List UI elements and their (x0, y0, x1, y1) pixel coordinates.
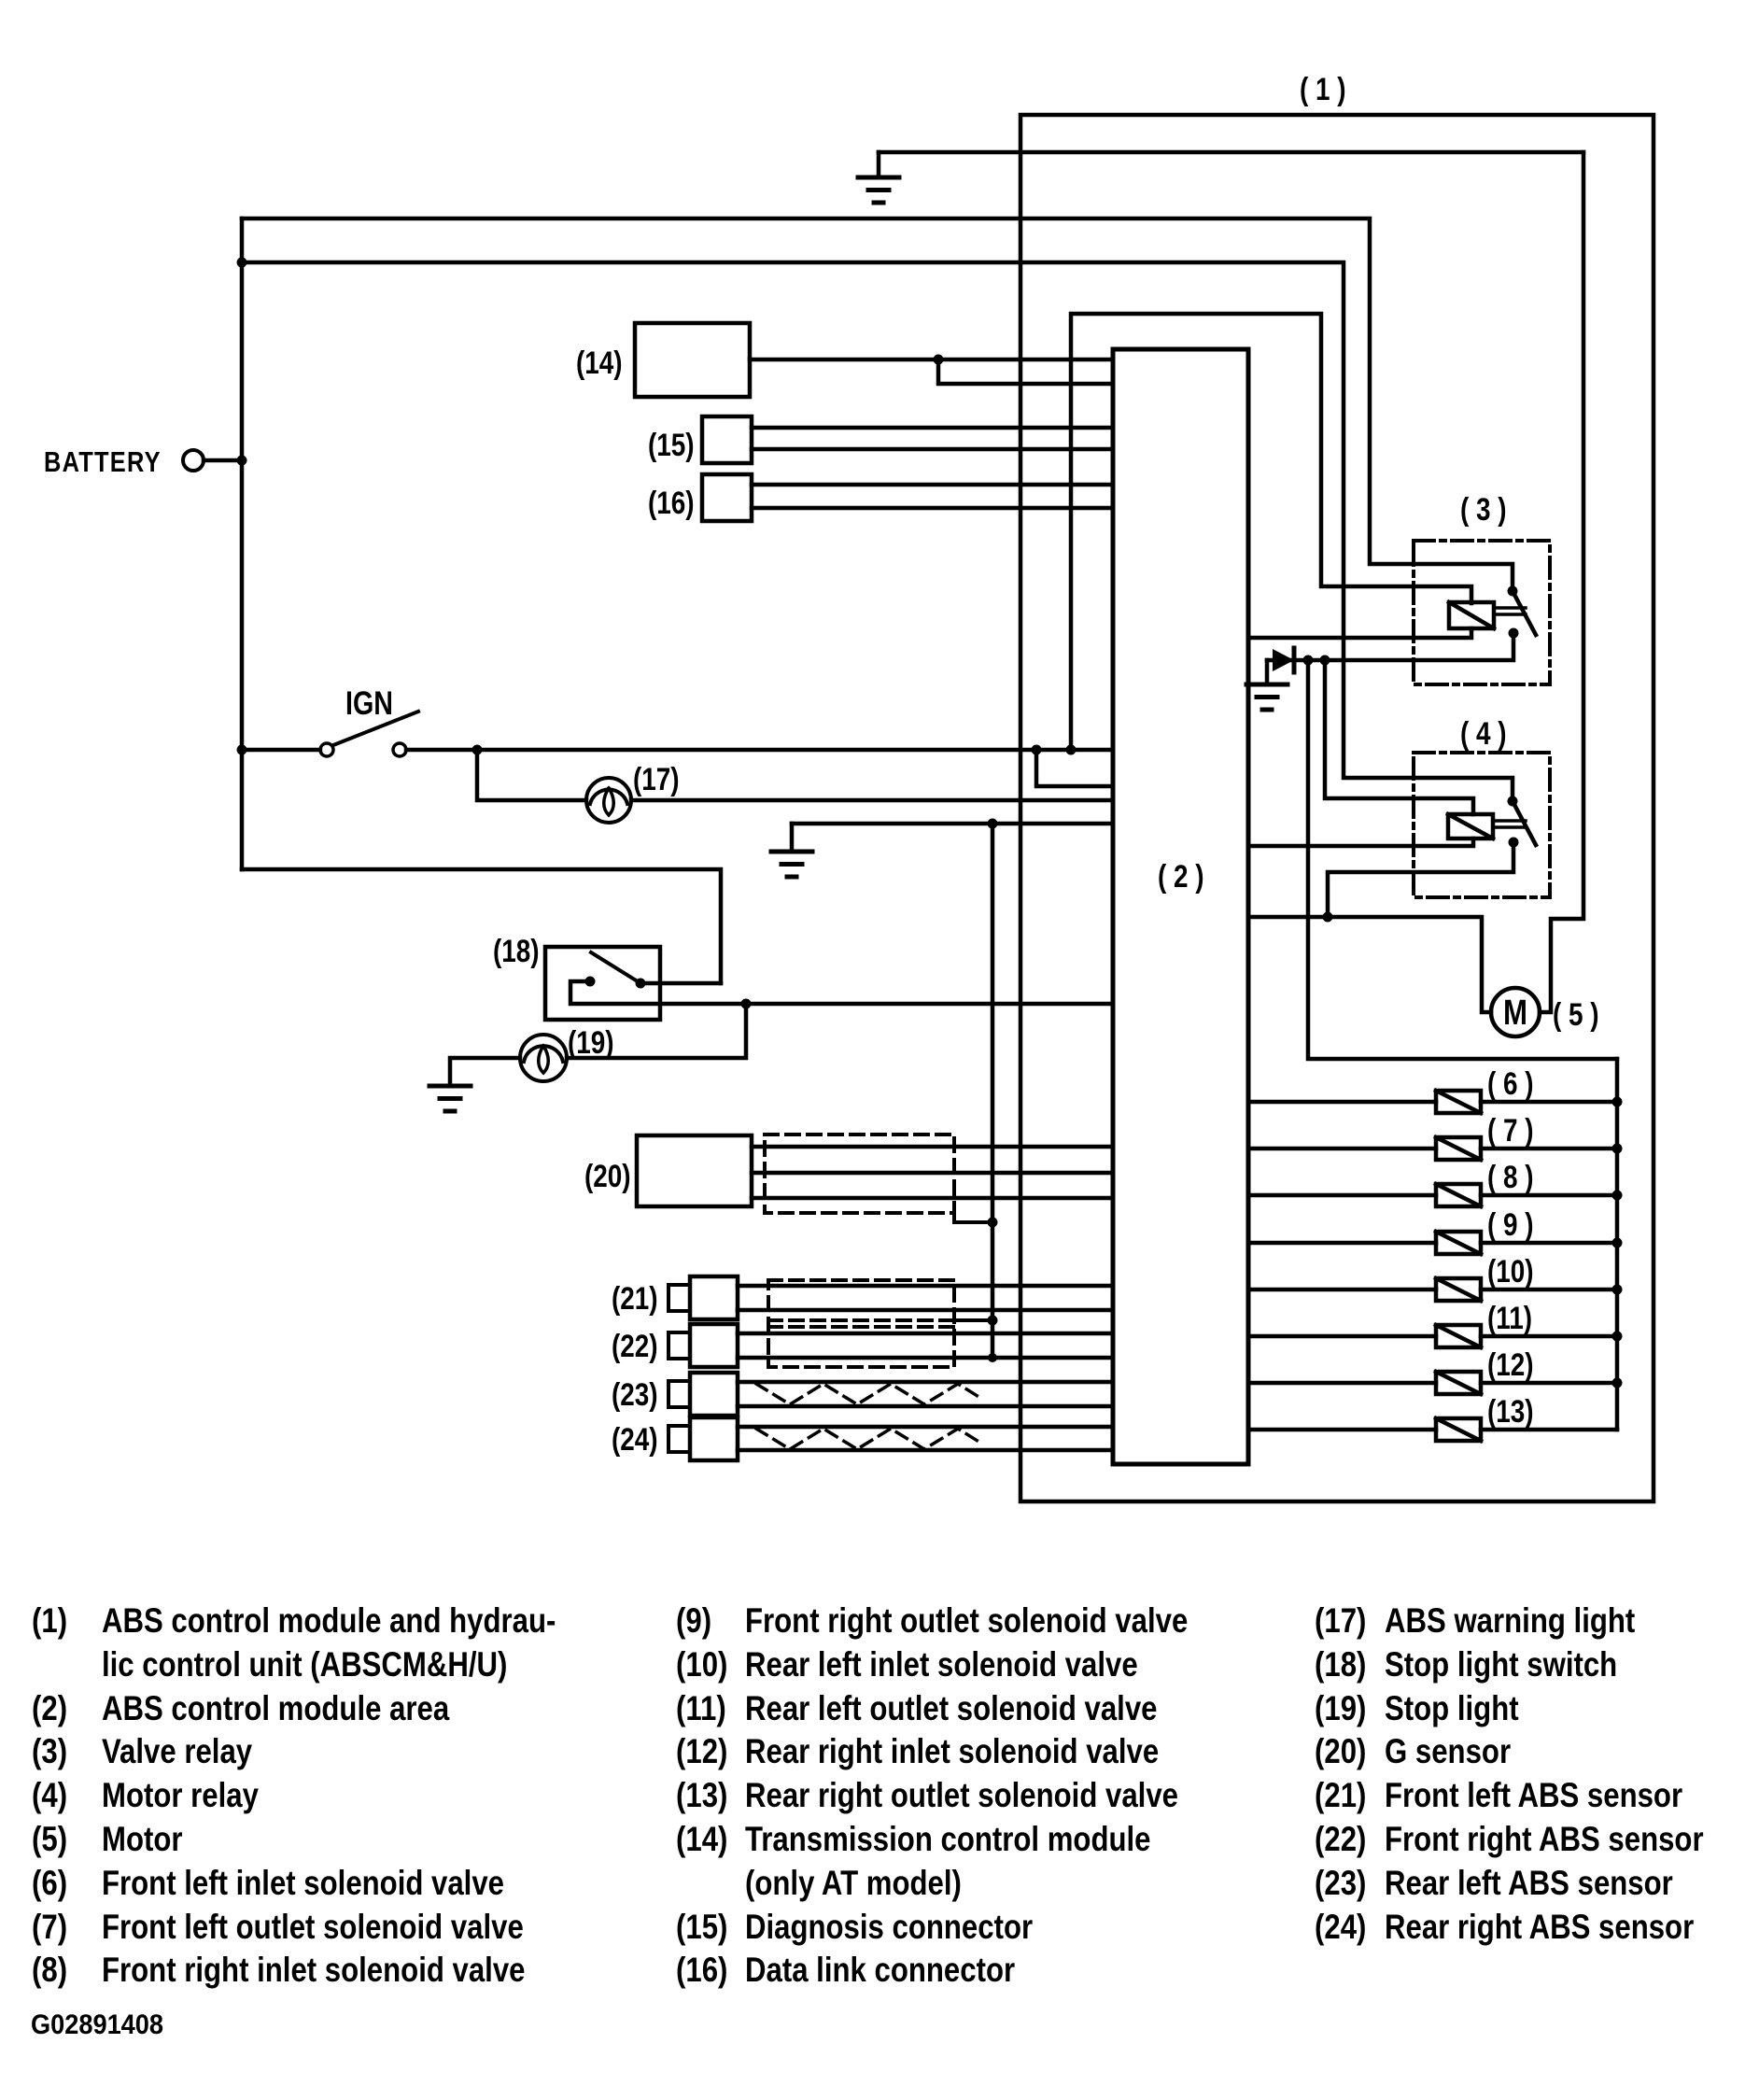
switch18 blade (591, 952, 640, 983)
solenoid valve (13) wire left (1248, 1428, 1436, 1432)
node solenoid (12) rail junction (1612, 1378, 1623, 1388)
twisted pair rear left sensor (756, 1384, 980, 1404)
svg-text:(21): (21) (612, 1281, 658, 1317)
node coil rail tap (1066, 745, 1077, 755)
svg-text:( 4 ): ( 4 ) (1460, 716, 1507, 752)
node solenoid (6) rail junction (1612, 1097, 1623, 1107)
wire 15 lower (752, 447, 1113, 452)
solenoid valve (12) wire left (1248, 1381, 1436, 1386)
svg-text:(8): (8) (32, 1951, 67, 1989)
node IGN-lamp tap (472, 745, 483, 755)
relay4 contact blade (1513, 801, 1536, 845)
svg-text:Front right outlet solenoid va: Front right outlet solenoid valve (745, 1601, 1188, 1640)
wire G shield stub (954, 1213, 992, 1222)
svg-text:Valve relay: Valve relay (102, 1732, 252, 1770)
ground2 stem (790, 824, 795, 851)
wire coil rail to valve relay coil (1071, 314, 1471, 750)
relay3 coil (1449, 602, 1494, 628)
wire lamp17 feed (477, 750, 586, 800)
front sensors shield mid line a (768, 1318, 954, 1322)
switch IGN contact a (320, 743, 333, 756)
motor (5) (1491, 988, 1540, 1036)
svg-text:(16): (16) (648, 486, 695, 521)
wire lamp17 to module (631, 798, 1113, 803)
node stop light tap (741, 999, 752, 1009)
svg-text:Rear left outlet solenoid valv: Rear left outlet solenoid valve (745, 1689, 1158, 1727)
svg-text:(19): (19) (568, 1025, 614, 1061)
wire TCM to module b (938, 359, 1113, 384)
wire G sensor 2 (752, 1171, 1113, 1176)
node ground rail tap (988, 819, 998, 829)
wire motor right (1540, 1010, 1551, 1015)
svg-text:Motor: Motor (102, 1820, 183, 1858)
svg-text:(24): (24) (1315, 1908, 1366, 1946)
solenoid valve (9) (1436, 1232, 1481, 1254)
stop light switch (18) box (545, 947, 660, 1020)
wire relay3 fixed to diode rail (1267, 633, 1513, 660)
node solenoid (10) rail junction (1612, 1285, 1623, 1295)
node relay4 fixed contact (1509, 838, 1519, 848)
motor relay (4) box (1414, 753, 1550, 897)
svg-text:(15): (15) (648, 428, 695, 463)
wire unit right drop to motor (1551, 152, 1583, 1009)
solenoid valve (11) wire right (1481, 1334, 1617, 1339)
node solenoid (9) rail junction (1612, 1238, 1623, 1248)
solenoid valve (12) wire right (1481, 1381, 1617, 1386)
svg-text:(17): (17) (1315, 1601, 1366, 1640)
svg-text:(20): (20) (1315, 1732, 1366, 1770)
wire module to motor (1248, 917, 1491, 1012)
relay4 armature (1496, 819, 1526, 823)
ground top bars (858, 176, 899, 180)
svg-text:(21): (21) (1315, 1776, 1366, 1814)
node TCM branch (934, 355, 944, 365)
node relay4 pivot (1508, 796, 1518, 807)
twisted pair rear right sensor (756, 1429, 980, 1449)
svg-text:(17): (17) (633, 762, 680, 797)
svg-text:Motor relay: Motor relay (102, 1776, 259, 1814)
solenoid valve (6) wire left (1248, 1100, 1436, 1105)
node switch18 pole (585, 977, 596, 987)
svg-text:(1): (1) (32, 1601, 67, 1640)
ground2 bars (771, 850, 812, 854)
ground stop light bars (429, 1084, 471, 1089)
wire 15 upper (752, 426, 1113, 430)
wire sensor 23 lower (738, 1404, 1113, 1409)
solenoid valve (11) wire left (1248, 1334, 1436, 1339)
wire front shield stub (954, 1318, 992, 1322)
svg-text:(10): (10) (676, 1645, 727, 1684)
solenoid valve (9) wire left (1248, 1241, 1436, 1246)
svg-text:(14): (14) (676, 1820, 727, 1858)
svg-text:Stop light switch: Stop light switch (1385, 1645, 1617, 1684)
wire motor return rail (1308, 660, 1617, 1059)
wire TCM to module a (750, 358, 1113, 362)
solenoid valve (13) wire right (1481, 1428, 1617, 1432)
node solenoid (11) rail junction (1612, 1332, 1623, 1342)
wire ground1 to unit (879, 150, 1583, 155)
svg-text:(3): (3) (32, 1732, 67, 1770)
solenoid valve (8) (1436, 1184, 1481, 1206)
wire relay3 coil bottom to module (1248, 628, 1471, 638)
ground top stem (877, 152, 881, 176)
svg-text:lic control unit (ABSCM&H/U): lic control unit (ABSCM&H/U) (102, 1645, 507, 1684)
solenoid valve (6) wire right (1481, 1100, 1617, 1105)
solenoid valve (10) (1436, 1278, 1481, 1301)
solenoid valve (7) (1436, 1137, 1481, 1160)
node solenoid (8) rail junction (1612, 1191, 1623, 1201)
front/rear ABS sensor (23) connector (668, 1381, 690, 1407)
svg-text:(11): (11) (676, 1689, 726, 1727)
svg-text:(11): (11) (1487, 1301, 1532, 1336)
svg-text:G02891408: G02891408 (31, 2009, 163, 2040)
wire IGN to module (406, 748, 1113, 753)
svg-text:(18): (18) (1315, 1645, 1366, 1684)
lamp (19) stop light (520, 1035, 567, 1081)
svg-text:Front left inlet solenoid valv: Front left inlet solenoid valve (102, 1864, 504, 1902)
wire sensor 22 lower (738, 1356, 1113, 1360)
svg-text:(18): (18) (493, 934, 540, 969)
svg-text:Front right ABS sensor: Front right ABS sensor (1385, 1820, 1704, 1858)
svg-text:(7): (7) (32, 1908, 67, 1946)
node shield tap front sensors (988, 1316, 998, 1326)
wire lamp19 left to ground (450, 1058, 520, 1085)
data link connector (16) box (702, 474, 752, 521)
svg-text:Diagnosis connector: Diagnosis connector (745, 1908, 1033, 1946)
svg-text:Transmission control module: Transmission control module (745, 1820, 1151, 1858)
node IGN jog tap (1032, 745, 1042, 755)
svg-text:(6): (6) (32, 1864, 67, 1902)
wire motor relay coil feed (1325, 660, 1473, 814)
wire 16 upper (752, 483, 1113, 487)
solenoid valve (7) wire left (1248, 1147, 1436, 1151)
node shield rail end (988, 1353, 997, 1362)
svg-text:Data link connector: Data link connector (745, 1951, 1015, 1989)
front sensors shield mid line b (768, 1325, 954, 1329)
wire sensor 24 upper (738, 1425, 1113, 1430)
svg-text:(22): (22) (1315, 1820, 1366, 1858)
diagnosis connector (15) box (702, 416, 752, 463)
node motor feed junction (1323, 912, 1333, 923)
svg-text:(20): (20) (584, 1159, 631, 1194)
svg-text:(14): (14) (576, 345, 623, 381)
wire sensor 22 upper (738, 1332, 1113, 1336)
front/rear ABS sensor (22) connector (668, 1332, 690, 1359)
svg-text:(19): (19) (1315, 1689, 1366, 1727)
wire sensor 21 lower (738, 1308, 1113, 1313)
svg-text:Rear right ABS sensor: Rear right ABS sensor (1385, 1908, 1694, 1946)
svg-text:Rear right inlet solenoid valv: Rear right inlet solenoid valve (745, 1732, 1159, 1770)
wire relay4 fixed to motor feed (1328, 842, 1513, 917)
svg-text:Front left ABS sensor: Front left ABS sensor (1385, 1776, 1682, 1814)
node switch18 fixed (636, 979, 646, 989)
node IGN tap (237, 745, 247, 755)
svg-text:( 9 ): ( 9 ) (1487, 1207, 1534, 1243)
svg-text:(12): (12) (1487, 1347, 1534, 1383)
svg-text:Front left outlet solenoid val: Front left outlet solenoid valve (102, 1908, 524, 1946)
solenoid valve (7) wire right (1481, 1147, 1617, 1151)
wire switch18 fixed link (640, 981, 721, 986)
node battery junction (237, 456, 247, 466)
wire ground2 to module (792, 822, 1113, 826)
solenoid valve (13) (1436, 1418, 1481, 1441)
wire battery to IGN contact (242, 748, 320, 753)
svg-text:ABS control module area: ABS control module area (102, 1689, 450, 1727)
svg-text:(2): (2) (32, 1689, 67, 1727)
node relay3 pivot (1508, 586, 1518, 597)
svg-text:ABS control module and hydrau-: ABS control module and hydrau- (102, 1601, 556, 1640)
ABS control module box (2) (1113, 349, 1248, 1464)
ABSCM&H/U unit box (1) outline (1020, 115, 1654, 1501)
node shield tap G sensor (988, 1218, 998, 1228)
solenoid valve (10) wire left (1248, 1288, 1436, 1292)
solenoid valve (9) wire right (1481, 1241, 1617, 1246)
wire relay4 coil bottom to module (1248, 839, 1473, 846)
node diode rail tap a (1303, 655, 1314, 666)
svg-text:(16): (16) (676, 1951, 727, 1989)
svg-text:( 5 ): ( 5 ) (1553, 997, 1599, 1033)
svg-text:(23): (23) (612, 1377, 658, 1413)
svg-text:(5): (5) (32, 1820, 67, 1858)
diode ground stem (1265, 660, 1270, 684)
wire second feed to motor relay (242, 262, 1513, 801)
svg-text:( 6 ): ( 6 ) (1487, 1066, 1534, 1102)
solenoid valve (8) wire left (1248, 1193, 1436, 1198)
svg-text:(15): (15) (676, 1908, 727, 1946)
svg-text:(10): (10) (1487, 1254, 1534, 1290)
front/rear ABS sensor (24) connector (668, 1426, 690, 1452)
G sensor (20) box (637, 1135, 752, 1206)
wire G sensor 1 (752, 1145, 1113, 1149)
switch IGN contact b (393, 743, 406, 756)
svg-text:(4): (4) (32, 1776, 67, 1814)
transmission control module (14) box (635, 323, 750, 397)
solenoid valve (11) (1436, 1325, 1481, 1347)
solenoid valve (8) wire right (1481, 1193, 1617, 1198)
relay3 armature (1496, 606, 1526, 610)
wire sensor 24 lower (738, 1448, 1113, 1453)
solenoid valve (6) (1436, 1091, 1481, 1113)
svg-text:( 2 ): ( 2 ) (1158, 859, 1204, 895)
svg-text:( 8 ): ( 8 ) (1487, 1160, 1534, 1195)
svg-text:IGN: IGN (345, 685, 393, 722)
wire switch18 common to module (570, 981, 1113, 1004)
relay3 contact blade (1513, 591, 1536, 635)
svg-text:(24): (24) (612, 1422, 658, 1458)
svg-text:(22): (22) (612, 1329, 658, 1364)
svg-text:BATTERY: BATTERY (44, 445, 162, 478)
node solenoid (7) rail junction (1612, 1144, 1623, 1154)
wire sensor 21 upper (738, 1284, 1113, 1289)
svg-text:Rear right outlet solenoid val: Rear right outlet solenoid valve (745, 1776, 1178, 1814)
svg-text:Rear left inlet solenoid valve: Rear left inlet solenoid valve (745, 1645, 1138, 1684)
svg-text:Front right inlet solenoid val: Front right inlet solenoid valve (102, 1951, 526, 1989)
switch IGN blade (333, 712, 418, 745)
svg-text:( 3 ): ( 3 ) (1460, 492, 1507, 528)
svg-text:ABS warning light: ABS warning light (1385, 1601, 1635, 1640)
svg-text:(only AT model): (only AT model) (745, 1864, 962, 1902)
svg-text:Rear left ABS sensor: Rear left ABS sensor (1385, 1864, 1673, 1902)
wire G sensor 3 (752, 1196, 1113, 1201)
wire solenoid return rail (1615, 1059, 1620, 1430)
svg-text:(13): (13) (1487, 1394, 1534, 1430)
wire lamp19 right (567, 1004, 746, 1058)
solenoid valve (10) wire right (1481, 1288, 1617, 1292)
solenoid valve (12) (1436, 1372, 1481, 1394)
wire rect bottom to stop light switch (242, 869, 721, 983)
relay4 coil (1448, 814, 1493, 839)
wire sensor 23 upper (738, 1380, 1113, 1385)
svg-text:(12): (12) (676, 1732, 727, 1770)
valve relay (3) box (1414, 541, 1550, 684)
svg-text:M: M (1503, 994, 1527, 1033)
wire top feed to valve relay (242, 218, 1513, 591)
svg-text:Stop light: Stop light (1385, 1689, 1519, 1727)
svg-text:(23): (23) (1315, 1864, 1366, 1902)
node second feed tap (237, 258, 247, 268)
wire battery rail (240, 218, 245, 869)
wire shield ground rail (991, 824, 995, 1358)
wire 16 lower (752, 506, 1113, 511)
svg-text:G sensor: G sensor (1385, 1732, 1511, 1770)
node relay3 fixed contact (1509, 628, 1519, 639)
lamp (17) ABS warning light (586, 778, 631, 823)
svg-text:( 1 ): ( 1 ) (1300, 72, 1346, 107)
svg-text:( 7 ): ( 7 ) (1487, 1113, 1534, 1149)
battery terminal (183, 450, 204, 471)
diode (1273, 649, 1294, 671)
diode ground bars (1246, 683, 1288, 687)
node diode rail tap b (1320, 655, 1330, 666)
front sensors shield box (768, 1280, 954, 1367)
svg-text:(13): (13) (676, 1776, 727, 1814)
G sensor shield box (765, 1135, 954, 1213)
svg-text:(9): (9) (676, 1601, 711, 1640)
front/rear ABS sensor (21) connector (668, 1285, 690, 1311)
wire IGN jog to module (1036, 750, 1113, 786)
